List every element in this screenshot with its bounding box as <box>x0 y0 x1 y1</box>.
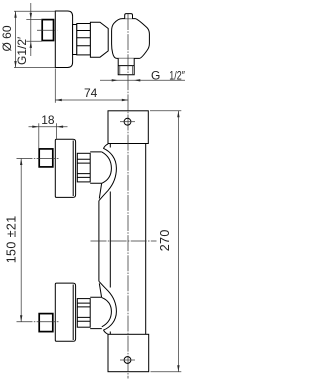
bottom arm inner contour <box>99 283 111 327</box>
svg-text:74: 74 <box>84 86 98 100</box>
top arm neck edges <box>90 152 102 183</box>
flange / wall plate (side view) <box>55 11 72 68</box>
dimension 18 : arrowheads <box>32 126 63 128</box>
bottom hole horizontal centerline <box>120 359 135 361</box>
top inlet centerline <box>17 158 59 160</box>
outlet thread inner lines <box>120 66 133 75</box>
bottom disc inner edge line <box>72 285 74 341</box>
bottom threaded square <box>39 314 53 332</box>
top nut ridge lines <box>77 159 90 177</box>
top mounting hole <box>124 118 131 125</box>
connector body with chamfered corners (side view) <box>90 22 108 57</box>
dimension 150 ±21 : arrowheads <box>20 159 22 322</box>
dimension 18 : extension lines <box>39 123 57 148</box>
collar ring (side view) <box>73 25 77 55</box>
bottom arm neck edges <box>90 297 102 328</box>
bottom arm outer bulge contour <box>99 281 117 334</box>
narrow bar right edge <box>145 144 147 335</box>
ridged nut (side view) <box>77 24 91 55</box>
nut ridge lines (side view) <box>77 31 91 46</box>
dimension Ø 60 : extension lines <box>14 11 55 67</box>
bottom valve assembly (mirrored) <box>39 283 102 341</box>
bottom inlet centerline <box>17 321 59 323</box>
top ridged nut <box>77 153 90 182</box>
dimension 270 : dimension line <box>177 111 179 372</box>
label G 1/2" : arrowheads <box>112 79 141 81</box>
dimension 150 ±21 : dimension line <box>20 159 22 322</box>
threaded tail square G1/2 (side view) <box>42 20 53 41</box>
dimension G1/2' : arrowheads <box>30 13 32 48</box>
button on knob top (side view) <box>125 14 133 19</box>
top disc inner edge line <box>72 141 74 197</box>
dimension Ø 60 : arrowheads <box>14 11 16 67</box>
narrow bar left edge segments <box>109 144 111 335</box>
outlet thread shoulder line <box>118 65 134 67</box>
svg-text:18: 18 <box>41 113 55 127</box>
knob barrel (side view) <box>112 19 150 59</box>
bottom nut ridge lines <box>77 303 90 321</box>
svg-text:270: 270 <box>158 229 172 251</box>
bar mid horizontal centerline <box>91 240 157 242</box>
top hole horizontal centerline <box>120 121 135 123</box>
dimension 270 : extension lines <box>150 111 181 372</box>
main vertical centerline through knob, outlet and bar <box>127 14 129 379</box>
bottom ridged nut <box>77 299 90 328</box>
bar top plate <box>108 111 148 144</box>
dimension G1/2' (tail thread) : arrow lines <box>26 3 42 56</box>
svg-text:G: G <box>151 68 160 82</box>
svg-text:1/2″: 1/2″ <box>169 68 185 82</box>
dimension 18 : arrow lines <box>29 126 68 128</box>
dimension Ø 60 : dimension line <box>15 11 17 67</box>
dimension 74 : arrowheads <box>55 99 128 101</box>
svg-text:150 ±21: 150 ±21 <box>5 215 19 263</box>
bottom eccentric disc <box>55 283 75 341</box>
bar bottom plate <box>108 334 149 371</box>
top threaded square <box>39 149 53 167</box>
top eccentric disc <box>55 139 75 197</box>
bottom mounting hole <box>124 357 131 364</box>
label G 1/2" (outlet thread) : leader lines <box>100 79 185 81</box>
dimension 74 : left extension line <box>54 69 56 103</box>
bottom arm contours (slightly compressed mirror) <box>99 281 117 334</box>
svg-text:Ø 60: Ø 60 <box>0 25 14 51</box>
outlet pipe below knob (side view) <box>118 58 134 74</box>
dimension 74 : dimension line <box>55 99 128 101</box>
top valve assembly <box>39 139 116 201</box>
dimension 270 : arrowheads <box>177 111 179 372</box>
svg-text:G1/2′: G1/2′ <box>15 36 29 65</box>
left strip between valve arms <box>98 201 100 282</box>
horizontal centerline of wall tail (side view) <box>37 29 57 31</box>
top arm outer bulge contour <box>99 144 117 201</box>
top arm inner contour <box>99 152 111 199</box>
